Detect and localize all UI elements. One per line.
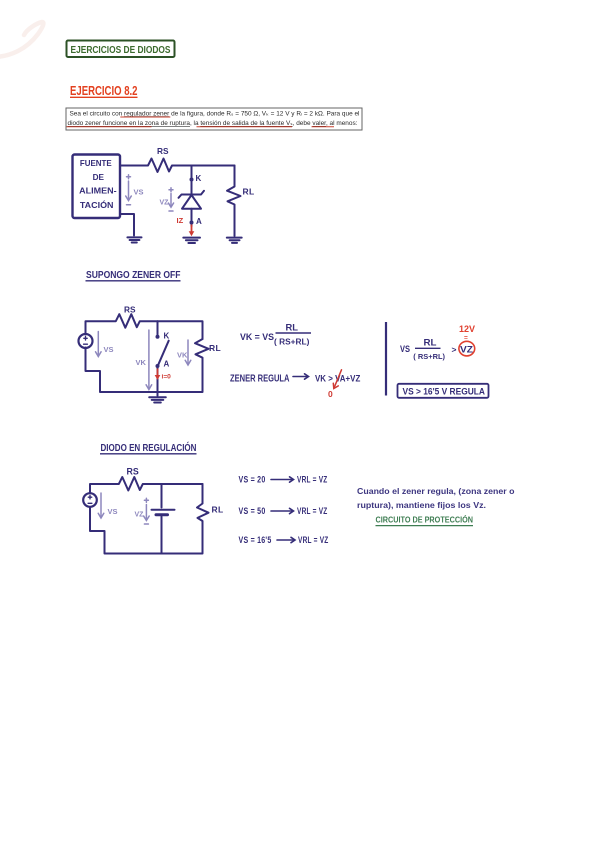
svg-text:VRL = VZ: VRL = VZ — [297, 506, 328, 516]
svg-text:RS: RS — [127, 467, 139, 477]
svg-text:EJERCICIOS DE DIODOS: EJERCICIOS DE DIODOS — [71, 45, 171, 56]
svg-text:VS = 50: VS = 50 — [239, 506, 266, 516]
svg-text:VRL = VZ: VRL = VZ — [297, 475, 328, 485]
svg-text:=: = — [464, 335, 468, 342]
svg-text:DE: DE — [93, 172, 105, 182]
svg-text:K: K — [164, 332, 170, 341]
svg-text:VS: VS — [400, 344, 410, 354]
svg-text:A: A — [196, 217, 202, 226]
svg-text:K: K — [196, 174, 202, 183]
svg-text:VZ: VZ — [160, 200, 170, 207]
svg-text:VRL = VZ: VRL = VZ — [298, 535, 329, 545]
svg-text:VS: VS — [108, 507, 118, 516]
svg-text:Cuando el zener regula, (zona: Cuando el zener regula, (zona zener o — [357, 487, 515, 496]
svg-text:RL: RL — [424, 338, 438, 348]
svg-text:DIODO EN REGULACIÓN: DIODO EN REGULACIÓN — [101, 441, 197, 454]
svg-text:FUENTE: FUENTE — [80, 158, 112, 168]
svg-text:12V: 12V — [459, 324, 475, 334]
svg-text:VK: VK — [136, 358, 147, 367]
svg-text:RL: RL — [243, 187, 255, 197]
svg-text:VK: VK — [177, 351, 188, 360]
svg-text:RS: RS — [157, 146, 169, 156]
svg-text:VS: VS — [134, 188, 144, 197]
svg-text:CIRCUITO DE PROTECCIÓN: CIRCUITO DE PROTECCIÓN — [376, 514, 474, 525]
svg-text:VS: VS — [104, 345, 114, 354]
svg-text:i=0: i=0 — [162, 374, 172, 381]
svg-text:EJERCICIO 8.2: EJERCICIO 8.2 — [70, 83, 138, 98]
svg-text:SUPONGO ZENER OFF: SUPONGO ZENER OFF — [86, 270, 181, 281]
svg-text:( RS+RL): ( RS+RL) — [274, 338, 310, 347]
svg-text:RS: RS — [124, 305, 136, 315]
svg-text:VZ: VZ — [460, 344, 474, 354]
svg-text:IZ: IZ — [177, 216, 184, 225]
svg-text:TACIÓN: TACIÓN — [80, 199, 114, 210]
svg-text:VS > 16'5 V REGULA: VS > 16'5 V REGULA — [403, 387, 486, 397]
svg-text:VS = 20: VS = 20 — [239, 475, 266, 485]
svg-text:Sea el circuito con regulador: Sea el circuito con regulador zener de l… — [70, 111, 360, 117]
svg-text:VZ: VZ — [135, 512, 145, 519]
svg-text:VK = VS: VK = VS — [240, 332, 274, 342]
svg-text:ALIMEN-: ALIMEN- — [79, 186, 117, 196]
svg-text:ruptura), mantiene fijos los V: ruptura), mantiene fijos los Vz. — [357, 501, 486, 510]
svg-text:RL: RL — [212, 505, 224, 515]
svg-text:VS = 16'5: VS = 16'5 — [239, 535, 272, 545]
svg-text:RL: RL — [209, 343, 221, 353]
svg-text:0: 0 — [328, 389, 333, 399]
svg-text:ZENER REGULA: ZENER REGULA — [230, 374, 290, 385]
svg-text:RL: RL — [286, 323, 299, 333]
svg-text:>: > — [452, 345, 457, 355]
svg-text:diodo zener funcione en la zon: diodo zener funcione en la zona de ruptu… — [68, 121, 358, 127]
svg-text:( RS+RL): ( RS+RL) — [413, 352, 445, 361]
svg-text:A: A — [164, 360, 170, 369]
